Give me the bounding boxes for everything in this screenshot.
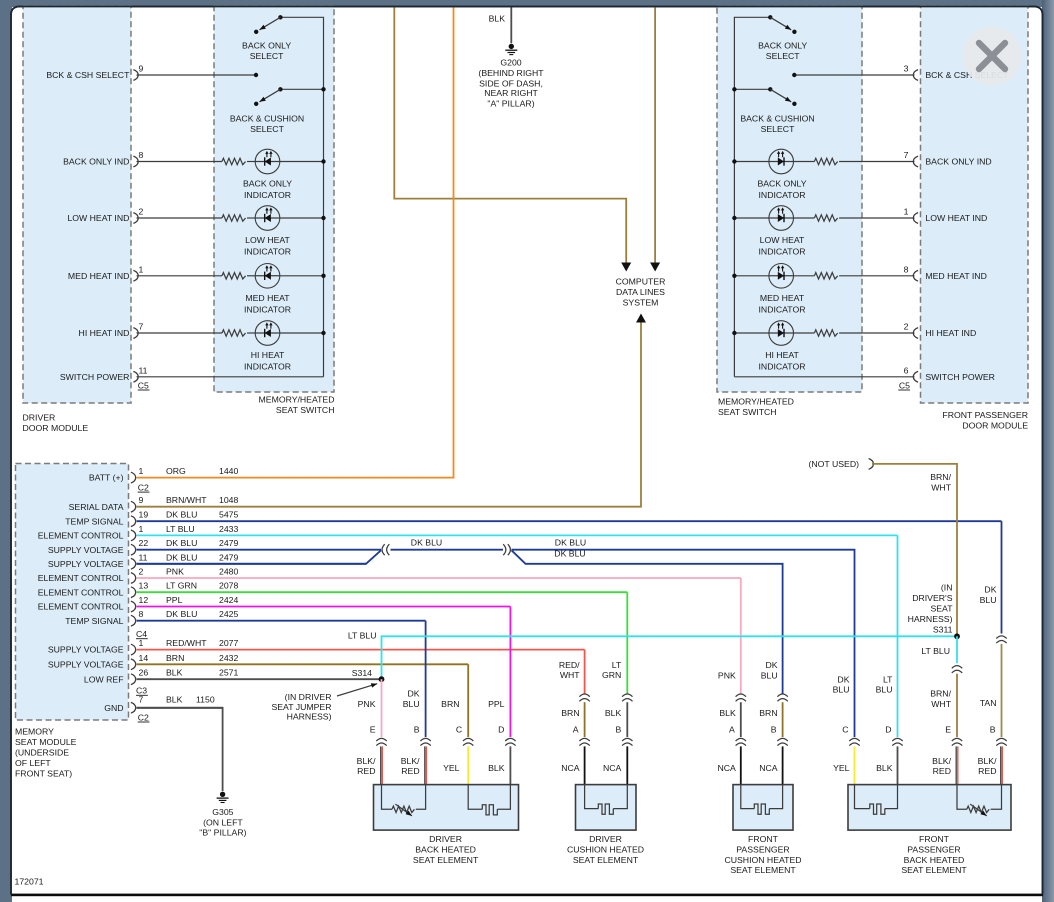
svg-text:MEMORY: MEMORY <box>15 726 54 736</box>
heater element (FP back) <box>855 785 870 809</box>
LED BACK ONLY indicator (left) <box>255 149 280 174</box>
svg-text:A: A <box>729 725 735 735</box>
svg-text:MEMORY/HEATED: MEMORY/HEATED <box>259 395 335 405</box>
svg-text:SEAT JUMPER: SEAT JUMPER <box>271 702 331 712</box>
svg-text:MED HEAT: MED HEAT <box>245 293 290 303</box>
svg-text:(IN: (IN <box>941 583 953 593</box>
svg-text:G305: G305 <box>212 807 233 817</box>
svg-text:BACK & CUSHION: BACK & CUSHION <box>230 114 304 124</box>
svg-text:2: 2 <box>139 567 144 577</box>
svg-text:ELEMENT CONTROL: ELEMENT CONTROL <box>38 573 124 583</box>
svg-text:BACK ONLY IND: BACK ONLY IND <box>925 157 991 167</box>
svg-text:SEAT SWITCH: SEAT SWITCH <box>276 405 335 415</box>
svg-text:PASSENGER: PASSENGER <box>736 844 789 854</box>
svg-text:"B" PILLAR): "B" PILLAR) <box>199 828 246 838</box>
resistor back only (left) <box>222 158 246 164</box>
svg-text:6: 6 <box>904 366 909 376</box>
wire BRN/WHT serial data 1048 <box>137 323 641 507</box>
svg-text:SUPPLY VOLTAGE: SUPPLY VOLTAGE <box>48 659 124 669</box>
wire BRN/WHT from not-used connector to S311 <box>872 464 957 636</box>
svg-text:SELECT: SELECT <box>766 51 800 61</box>
svg-text:SEAT SWITCH: SEAT SWITCH <box>718 407 777 417</box>
svg-text:SEAT ELEMENT: SEAT ELEMENT <box>413 855 479 865</box>
LED MED HEAT indicator (right) <box>769 264 794 289</box>
wire to element <box>424 746 426 785</box>
wire DK BLU joined segment <box>391 549 504 551</box>
svg-text:BATT (+): BATT (+) <box>89 473 124 483</box>
svg-text:SUPPLY VOLTAGE: SUPPLY VOLTAGE <box>48 645 124 655</box>
svg-text:SWITCH POWER: SWITCH POWER <box>60 372 130 382</box>
label (IN DRIVER SEAT JUMPER HARNESS) with arrow <box>337 684 377 696</box>
svg-text:HI HEAT IND: HI HEAT IND <box>925 328 976 338</box>
svg-text:LT BLU: LT BLU <box>348 631 377 641</box>
svg-text:NCA: NCA <box>603 763 622 773</box>
svg-text:RED: RED <box>933 766 951 776</box>
svg-text:2425: 2425 <box>219 609 238 619</box>
inline connector (( <box>382 544 385 555</box>
svg-text:C: C <box>842 725 848 735</box>
svg-text:DK BLU: DK BLU <box>555 537 586 547</box>
wire ORG 1440 <box>137 477 454 479</box>
svg-text:PASSENGER: PASSENGER <box>907 844 960 854</box>
svg-text:DK: DK <box>408 689 420 699</box>
wire DK BLU 5475 to FP back B <box>1001 521 1003 633</box>
wire DK BLU 2425 <box>137 620 426 622</box>
svg-text:SEAT ELEMENT: SEAT ELEMENT <box>573 855 639 865</box>
svg-text:B: B <box>616 725 622 735</box>
LED HI HEAT indicator (right) <box>769 321 794 346</box>
svg-text:LT: LT <box>612 660 622 670</box>
svg-text:8: 8 <box>139 609 144 619</box>
svg-text:B: B <box>414 725 420 735</box>
svg-text:7: 7 <box>139 322 144 332</box>
driver door module box <box>23 6 131 403</box>
wire through resistor and indicator to bus <box>137 275 223 277</box>
resistor med heat (right) <box>814 273 837 279</box>
svg-text:PPL: PPL <box>166 595 183 605</box>
svg-text:9: 9 <box>139 495 144 505</box>
svg-text:E: E <box>370 725 376 735</box>
svg-text:TEMP SIGNAL: TEMP SIGNAL <box>65 616 123 626</box>
wire through resistor and indicator to bus <box>137 217 223 219</box>
svg-text:BACK ONLY: BACK ONLY <box>243 179 292 189</box>
svg-text:INDICATOR: INDICATOR <box>759 362 806 372</box>
svg-text:2479: 2479 <box>219 538 238 548</box>
resistor low heat (left) <box>222 215 246 221</box>
svg-text:BACK ONLY IND: BACK ONLY IND <box>63 157 129 167</box>
svg-text:HI HEAT IND: HI HEAT IND <box>79 328 130 338</box>
svg-text:(IN DRIVER: (IN DRIVER <box>285 692 332 702</box>
wire to element <box>955 746 957 785</box>
wire RED/WHT 2077 <box>137 649 585 651</box>
wire to element <box>782 746 784 785</box>
svg-text:FRONT PASSENGER: FRONT PASSENGER <box>942 410 1028 420</box>
svg-text:BLU: BLU <box>403 699 420 709</box>
svg-text:NEAR RIGHT: NEAR RIGHT <box>484 88 538 98</box>
svg-text:RED: RED <box>978 766 996 776</box>
svg-text:SELECT: SELECT <box>250 124 284 134</box>
svg-text:2424: 2424 <box>219 595 238 605</box>
wire switch power <box>734 376 914 378</box>
svg-text:13: 13 <box>139 581 149 591</box>
svg-text:9: 9 <box>139 64 144 74</box>
svg-text:26: 26 <box>139 668 149 678</box>
svg-text:INDICATOR: INDICATOR <box>244 190 291 200</box>
svg-text:INDICATOR: INDICATOR <box>244 304 291 314</box>
wire to element <box>380 746 382 785</box>
wire BLK 1150 to G305 <box>137 708 223 791</box>
svg-text:DK: DK <box>766 660 778 670</box>
svg-text:BRN: BRN <box>759 708 777 718</box>
wire to terminal <box>740 702 742 737</box>
svg-text:C5: C5 <box>138 380 149 390</box>
svg-text:DRIVER'S: DRIVER'S <box>912 593 952 603</box>
ground G305 <box>220 792 225 797</box>
svg-text:BLK/: BLK/ <box>401 756 420 766</box>
slate frame top bar <box>0 0 1054 7</box>
svg-text:SELECT: SELECT <box>761 124 795 134</box>
thermistor (FP back) <box>957 785 967 810</box>
inline connector )) <box>508 544 511 555</box>
wire LT BLU 2433 <box>137 534 898 536</box>
svg-text:19: 19 <box>139 510 149 520</box>
svg-text:SEAT: SEAT <box>930 604 953 614</box>
wire BLK to G200 <box>510 7 512 43</box>
svg-text:1: 1 <box>904 207 909 217</box>
wire to terminal <box>782 702 784 737</box>
svg-text:1150: 1150 <box>196 695 215 705</box>
svg-text:8: 8 <box>904 265 909 275</box>
svg-text:RED/WHT: RED/WHT <box>166 638 207 648</box>
front passenger cushion heated seat element <box>733 785 793 831</box>
driver cushion heated seat element <box>576 785 637 831</box>
svg-text:SEAT ELEMENT: SEAT ELEMENT <box>730 865 796 875</box>
svg-text:HARNESS): HARNESS) <box>287 712 332 722</box>
svg-text:OF LEFT: OF LEFT <box>15 758 51 768</box>
svg-text:(ON LEFT: (ON LEFT <box>203 817 243 827</box>
svg-text:172071: 172071 <box>15 877 44 887</box>
wire switch power <box>137 376 324 378</box>
svg-text:"A" PILLAR): "A" PILLAR) <box>487 98 534 108</box>
svg-text:2571: 2571 <box>219 668 238 678</box>
svg-text:2433: 2433 <box>219 524 238 534</box>
svg-text:NCA: NCA <box>717 763 736 773</box>
svg-text:BLK: BLK <box>166 695 183 705</box>
svg-text:HI HEAT: HI HEAT <box>765 350 799 360</box>
wire to element <box>1000 746 1002 785</box>
svg-text:BACK & CUSHION: BACK & CUSHION <box>740 114 814 124</box>
svg-text:PNK: PNK <box>718 671 736 681</box>
svg-text:SYSTEM: SYSTEM <box>623 298 659 308</box>
svg-text:11: 11 <box>139 366 148 376</box>
svg-text:G200: G200 <box>500 57 521 67</box>
svg-text:DK: DK <box>837 675 849 685</box>
switch back only select (left) <box>278 15 282 19</box>
svg-text:LOW HEAT IND: LOW HEAT IND <box>925 213 987 223</box>
wire through resistor and indicator to bus <box>839 275 914 277</box>
wire DK BLU 2425 down to driver back B <box>425 621 427 737</box>
svg-text:DRIVER: DRIVER <box>589 834 622 844</box>
switch back & cushion select (right) <box>734 88 770 90</box>
svg-text:BLK: BLK <box>876 763 893 773</box>
svg-text:LT: LT <box>883 675 893 685</box>
svg-text:1440: 1440 <box>219 466 238 476</box>
wire PNK 2480 <box>137 577 741 579</box>
wire to switch contact <box>137 74 257 76</box>
inline connector colour change <box>622 694 632 697</box>
svg-text:CUSHION HEATED: CUSHION HEATED <box>724 855 801 865</box>
wire LT GRN 2078 down to driver cushion B <box>626 592 628 693</box>
svg-text:D: D <box>885 725 891 735</box>
svg-text:BLK/: BLK/ <box>357 756 376 766</box>
wire to element <box>509 746 511 785</box>
svg-text:LOW HEAT: LOW HEAT <box>760 235 805 245</box>
svg-text:GND: GND <box>104 703 123 713</box>
svg-text:1: 1 <box>139 265 144 275</box>
svg-text:NCA: NCA <box>759 763 778 773</box>
memory seat module box <box>16 464 129 721</box>
svg-text:B: B <box>771 725 777 735</box>
svg-text:BRN: BRN <box>441 699 459 709</box>
wire RED/WHT 2077 down to driver cushion A <box>584 650 586 694</box>
svg-text:BCK & CSH SELECT: BCK & CSH SELECT <box>46 70 130 80</box>
wire to element <box>467 746 469 785</box>
svg-text:E: E <box>945 725 951 735</box>
svg-text:RED: RED <box>357 766 375 776</box>
wire to element <box>854 746 856 785</box>
svg-text:DK BLU: DK BLU <box>554 548 585 558</box>
svg-text:PPL: PPL <box>488 699 505 709</box>
svg-text:8: 8 <box>139 150 144 160</box>
svg-text:DK: DK <box>984 585 996 595</box>
svg-text:DOOR MODULE: DOOR MODULE <box>23 423 89 433</box>
resistor hi heat (left) <box>222 330 246 336</box>
wire BLK 2571 <box>137 678 382 680</box>
resistor low heat (right) <box>814 215 837 221</box>
svg-text:MED HEAT IND: MED HEAT IND <box>925 271 986 281</box>
svg-text:SUPPLY VOLTAGE: SUPPLY VOLTAGE <box>48 559 124 569</box>
svg-text:WHT: WHT <box>931 483 951 493</box>
svg-text:B: B <box>990 725 996 735</box>
inline connector colour change <box>777 694 787 697</box>
svg-text:CUSHION HEATED: CUSHION HEATED <box>567 844 644 854</box>
svg-text:SWITCH POWER: SWITCH POWER <box>925 372 995 382</box>
svg-text:DK BLU: DK BLU <box>166 538 197 548</box>
wire to element <box>740 746 742 785</box>
svg-text:DRIVER: DRIVER <box>429 834 462 844</box>
wire PNK 2480 to FP cushion A <box>740 578 742 694</box>
svg-text:INDICATOR: INDICATOR <box>759 304 806 314</box>
svg-text:1: 1 <box>139 524 144 534</box>
inline connector colour change <box>579 694 589 697</box>
bus wire right switch <box>734 17 770 377</box>
svg-text:ORG: ORG <box>166 466 186 476</box>
svg-text:2: 2 <box>904 322 909 332</box>
slate frame left column <box>0 0 12 902</box>
heater element (driver cushion) <box>585 785 599 809</box>
svg-text:2432: 2432 <box>219 653 238 663</box>
thermistor (driver back) <box>382 785 393 810</box>
wire DK BLU 2479 (pin 22) <box>137 549 381 551</box>
wire to switch contact <box>794 74 914 76</box>
svg-text:BLU: BLU <box>761 671 778 681</box>
LED HI HEAT indicator (left) <box>255 321 280 346</box>
svg-text:BLK/: BLK/ <box>932 756 951 766</box>
wire PPL 2424 <box>137 606 511 608</box>
resistor hi heat (right) <box>814 330 837 336</box>
svg-text:DATA LINES: DATA LINES <box>616 287 665 297</box>
svg-text:DRIVER: DRIVER <box>23 413 56 423</box>
wire through resistor and indicator to bus <box>839 332 914 334</box>
wire TAN to FP back B terminal <box>1001 644 1003 737</box>
LED MED HEAT indicator (left) <box>255 264 280 289</box>
wire through resistor and indicator to bus <box>839 217 914 219</box>
svg-text:BRN/: BRN/ <box>930 472 951 482</box>
wire LT BLU S314 to S311 <box>382 636 958 679</box>
svg-text:BLK: BLK <box>605 708 622 718</box>
svg-text:INDICATOR: INDICATOR <box>759 190 806 200</box>
svg-text:ELEMENT CONTROL: ELEMENT CONTROL <box>38 531 124 541</box>
switch back only select (right) <box>768 15 772 19</box>
svg-text:BRN/: BRN/ <box>930 689 951 699</box>
svg-text:SEAT ELEMENT: SEAT ELEMENT <box>901 865 967 875</box>
left memory/heated seat switch box <box>214 6 334 392</box>
svg-text:2078: 2078 <box>219 581 238 591</box>
wire PNK below S314 to driver back E <box>381 679 383 737</box>
svg-text:PNK: PNK <box>166 567 184 577</box>
svg-text:COMPUTER: COMPUTER <box>616 276 666 286</box>
wire BRN 2432 <box>137 663 469 665</box>
svg-text:2480: 2480 <box>219 567 238 577</box>
svg-text:7: 7 <box>139 695 144 705</box>
svg-text:LT BLU: LT BLU <box>166 524 195 534</box>
svg-text:HI HEAT: HI HEAT <box>251 350 285 360</box>
svg-text:LT GRN: LT GRN <box>166 581 197 591</box>
svg-text:ELEMENT CONTROL: ELEMENT CONTROL <box>38 587 124 597</box>
svg-text:1048: 1048 <box>219 495 238 505</box>
svg-text:FRONT SEAT): FRONT SEAT) <box>15 768 72 778</box>
svg-text:SEAT MODULE: SEAT MODULE <box>15 737 77 747</box>
close button <box>962 27 1021 86</box>
svg-text:MED HEAT: MED HEAT <box>760 293 805 303</box>
svg-text:BLK/: BLK/ <box>978 756 997 766</box>
svg-text:7: 7 <box>904 150 909 160</box>
svg-text:TEMP SIGNAL: TEMP SIGNAL <box>65 516 123 526</box>
svg-text:INDICATOR: INDICATOR <box>759 247 806 257</box>
svg-text:WHT: WHT <box>560 670 580 680</box>
wire DK BLU 5475 <box>137 520 1002 522</box>
wire DK BLU 2479 (pin 11) merge diagonal <box>137 550 381 564</box>
svg-text:C2: C2 <box>138 712 149 722</box>
svg-text:3: 3 <box>904 64 909 74</box>
svg-text:FRONT: FRONT <box>748 834 779 844</box>
wire BLK 1150 <box>137 707 223 709</box>
svg-text:(BEHIND RIGHT: (BEHIND RIGHT <box>478 68 544 78</box>
svg-text:RED/: RED/ <box>559 660 580 670</box>
svg-text:BACK ONLY: BACK ONLY <box>757 179 806 189</box>
heater element (driver back) <box>468 785 482 810</box>
svg-text:(NOT USED): (NOT USED) <box>808 459 859 469</box>
svg-text:C5: C5 <box>899 380 910 390</box>
svg-text:C3: C3 <box>136 686 147 696</box>
svg-text:YEL: YEL <box>443 763 460 773</box>
resistor med heat (left) <box>222 273 246 279</box>
wire through resistor and indicator to bus <box>137 161 223 163</box>
svg-text:MEMORY/HEATED: MEMORY/HEATED <box>718 397 794 407</box>
svg-text:ELEMENT CONTROL: ELEMENT CONTROL <box>38 602 124 612</box>
svg-text:PNK: PNK <box>358 699 376 709</box>
wire LT BLU 2433 to FP back D <box>897 535 899 737</box>
svg-text:BACK ONLY: BACK ONLY <box>242 40 291 50</box>
svg-text:DK BLU: DK BLU <box>166 552 197 562</box>
wire BRN 2432 down to driver back C <box>467 664 469 737</box>
svg-text:C2: C2 <box>138 482 149 492</box>
front passenger back heated seat element <box>848 785 1011 831</box>
svg-text:11: 11 <box>139 552 148 562</box>
wire DK BLU 2479 lower to FP cushion B <box>512 550 783 693</box>
svg-text:BACK HEATED: BACK HEATED <box>904 855 965 865</box>
wire LT BLU below S311 <box>956 636 958 663</box>
svg-text:2479: 2479 <box>219 552 238 562</box>
svg-text:YEL: YEL <box>833 763 850 773</box>
resistor back only (right) <box>814 158 837 164</box>
wire through resistor and indicator to bus <box>839 161 914 163</box>
svg-text:SELECT: SELECT <box>250 51 284 61</box>
svg-text:SERIAL DATA: SERIAL DATA <box>69 502 124 512</box>
svg-text:WHT: WHT <box>931 699 951 709</box>
svg-text:INDICATOR: INDICATOR <box>244 362 291 372</box>
front passenger door module box <box>921 6 1029 403</box>
wire ORG 1440 batt riser <box>453 7 455 479</box>
LED LOW HEAT indicator (left) <box>255 206 280 231</box>
svg-text:A: A <box>573 725 579 735</box>
svg-text:(UNDERSIDE: (UNDERSIDE <box>15 747 69 757</box>
svg-text:14: 14 <box>139 653 149 663</box>
svg-text:SUPPLY VOLTAGE: SUPPLY VOLTAGE <box>48 545 124 555</box>
wire to element <box>897 746 899 785</box>
ground G200 <box>509 44 514 49</box>
wire PPL 2424 down to driver back D <box>509 607 511 738</box>
svg-text:MED HEAT IND: MED HEAT IND <box>68 271 129 281</box>
svg-text:DK BLU: DK BLU <box>166 510 197 520</box>
LED LOW HEAT indicator (right) <box>769 206 794 231</box>
svg-text:HARNESS): HARNESS) <box>908 614 953 624</box>
svg-text:BACK HEATED: BACK HEATED <box>415 844 476 854</box>
svg-text:SIDE OF DASH,: SIDE OF DASH, <box>479 78 543 88</box>
svg-text:BLU: BLU <box>876 685 893 695</box>
svg-text:BRN: BRN <box>561 708 579 718</box>
svg-text:5475: 5475 <box>219 510 238 520</box>
svg-text:22: 22 <box>139 538 149 548</box>
svg-text:RED: RED <box>401 766 419 776</box>
svg-text:BLK: BLK <box>489 13 506 23</box>
svg-text:S314: S314 <box>352 668 372 678</box>
svg-text:1: 1 <box>139 466 144 476</box>
svg-text:LOW HEAT: LOW HEAT <box>245 235 290 245</box>
svg-text:LOW HEAT IND: LOW HEAT IND <box>67 213 129 223</box>
wire DK BLU 2479 upper to FP back C <box>512 550 855 737</box>
svg-text:LOW REF: LOW REF <box>84 674 124 684</box>
inline connector colour change <box>736 694 746 697</box>
svg-text:DOOR MODULE: DOOR MODULE <box>962 421 1028 431</box>
heater element (FP cushion) <box>741 785 755 809</box>
svg-text:INDICATOR: INDICATOR <box>244 247 291 257</box>
svg-text:BRN: BRN <box>166 653 184 663</box>
svg-text:C: C <box>456 725 462 735</box>
wire LT GRN 2078 <box>137 591 628 593</box>
svg-text:D: D <box>498 725 504 735</box>
driver back heated seat element <box>374 785 519 831</box>
